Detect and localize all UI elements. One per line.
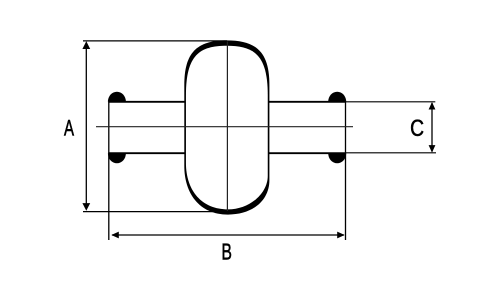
bar left end edge + B extension line (108, 102, 110, 240)
dimension C bottom arrow (429, 145, 436, 153)
dimension B right arrow (337, 232, 345, 239)
oval body inner contour (white) (186, 46, 268, 210)
bar top edge right segment (269, 101, 346, 103)
dimension C extension line top (346, 101, 435, 103)
horizontal centerline (96, 126, 353, 128)
dimension A extension line bottom (83, 211, 227, 213)
dimension A top arrow (82, 41, 90, 49)
dimension C extension line bottom (346, 152, 436, 154)
left top bump (108, 92, 126, 102)
bar bottom edge right segment (269, 152, 346, 154)
dimension C line (431, 103, 433, 152)
bar right end edge + B extension line (345, 101, 347, 240)
left bottom bump (108, 153, 126, 163)
label A (64, 120, 74, 136)
bar bottom edge left segment (108, 152, 185, 154)
vertical centerline (226, 42, 228, 212)
dimension C top arrow (429, 102, 436, 110)
oval body outer contour (184, 40, 269, 214)
dimension A extension line top (83, 40, 227, 42)
label C (411, 120, 423, 136)
right top bump (328, 92, 346, 102)
right bottom bump (328, 153, 346, 163)
label B (223, 244, 231, 260)
dimension A bottom arrow (82, 203, 90, 211)
dimension B line (112, 234, 344, 236)
dimension A line (85, 43, 87, 209)
dimension B left arrow (111, 232, 119, 239)
bar top edge left segment (108, 101, 185, 103)
